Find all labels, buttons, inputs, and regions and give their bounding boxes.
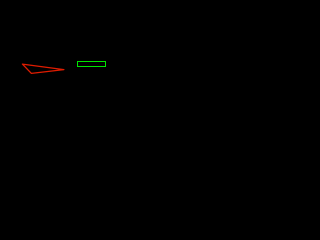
green rectangle: [78, 62, 106, 67]
red triangle: [22, 64, 64, 73]
